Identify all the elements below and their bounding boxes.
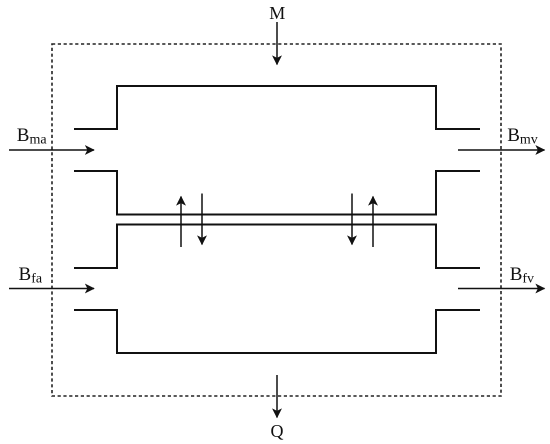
svg-text:Q: Q [271,421,284,441]
svg-text:Bfv: Bfv [510,264,534,287]
svg-text:Bfa: Bfa [19,264,43,287]
svg-text:Bma: Bma [17,125,48,148]
svg-text:Bmv: Bmv [507,125,538,148]
svg-text:M: M [269,3,285,23]
